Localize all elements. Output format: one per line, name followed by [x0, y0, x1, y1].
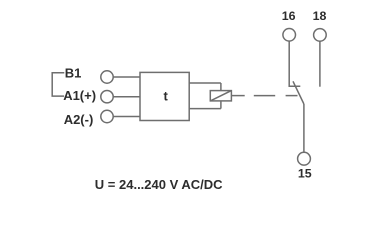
wire dashed mechanical link segment 1: [254, 95, 275, 97]
wire dashed mechanical link segment 2: [286, 95, 298, 97]
svg-text:A2(-): A2(-): [64, 112, 94, 127]
wire A2 terminal to timer box: [113, 116, 140, 118]
svg-text:t: t: [164, 89, 169, 104]
wire lever to terminal 15: [303, 104, 305, 152]
wire terminal 16 with NC contact seat: [289, 41, 300, 86]
svg-text:18: 18: [313, 9, 327, 23]
wire actuator lead: [231, 95, 244, 97]
wire B1 terminal to timer box: [113, 76, 140, 78]
terminal 15: [298, 152, 311, 165]
wire A1 terminal to timer box: [113, 96, 140, 98]
wire terminal 18: [319, 42, 321, 87]
terminal B1: [101, 71, 113, 83]
svg-text:A1(+): A1(+): [63, 88, 96, 103]
timer box U1: [140, 72, 189, 120]
terminal 16: [283, 29, 296, 42]
actuator K1 mechanical drive element: [210, 91, 231, 101]
svg-text:16: 16: [282, 9, 296, 23]
svg-text:15: 15: [298, 167, 312, 181]
terminal 18: [314, 29, 327, 42]
wire timer output bottom stub: [189, 108, 221, 110]
terminal A2(-): [101, 110, 113, 122]
wire output vertical link: [220, 83, 222, 109]
contact lever changeover: [293, 81, 304, 104]
terminal A1(+): [101, 91, 113, 103]
wire bracket linking B1 and A1(+): [52, 73, 64, 96]
svg-text:U = 24...240 V AC/DC: U = 24...240 V AC/DC: [95, 177, 223, 192]
wire timer output top stub: [189, 82, 221, 84]
svg-text:B1: B1: [65, 65, 82, 80]
